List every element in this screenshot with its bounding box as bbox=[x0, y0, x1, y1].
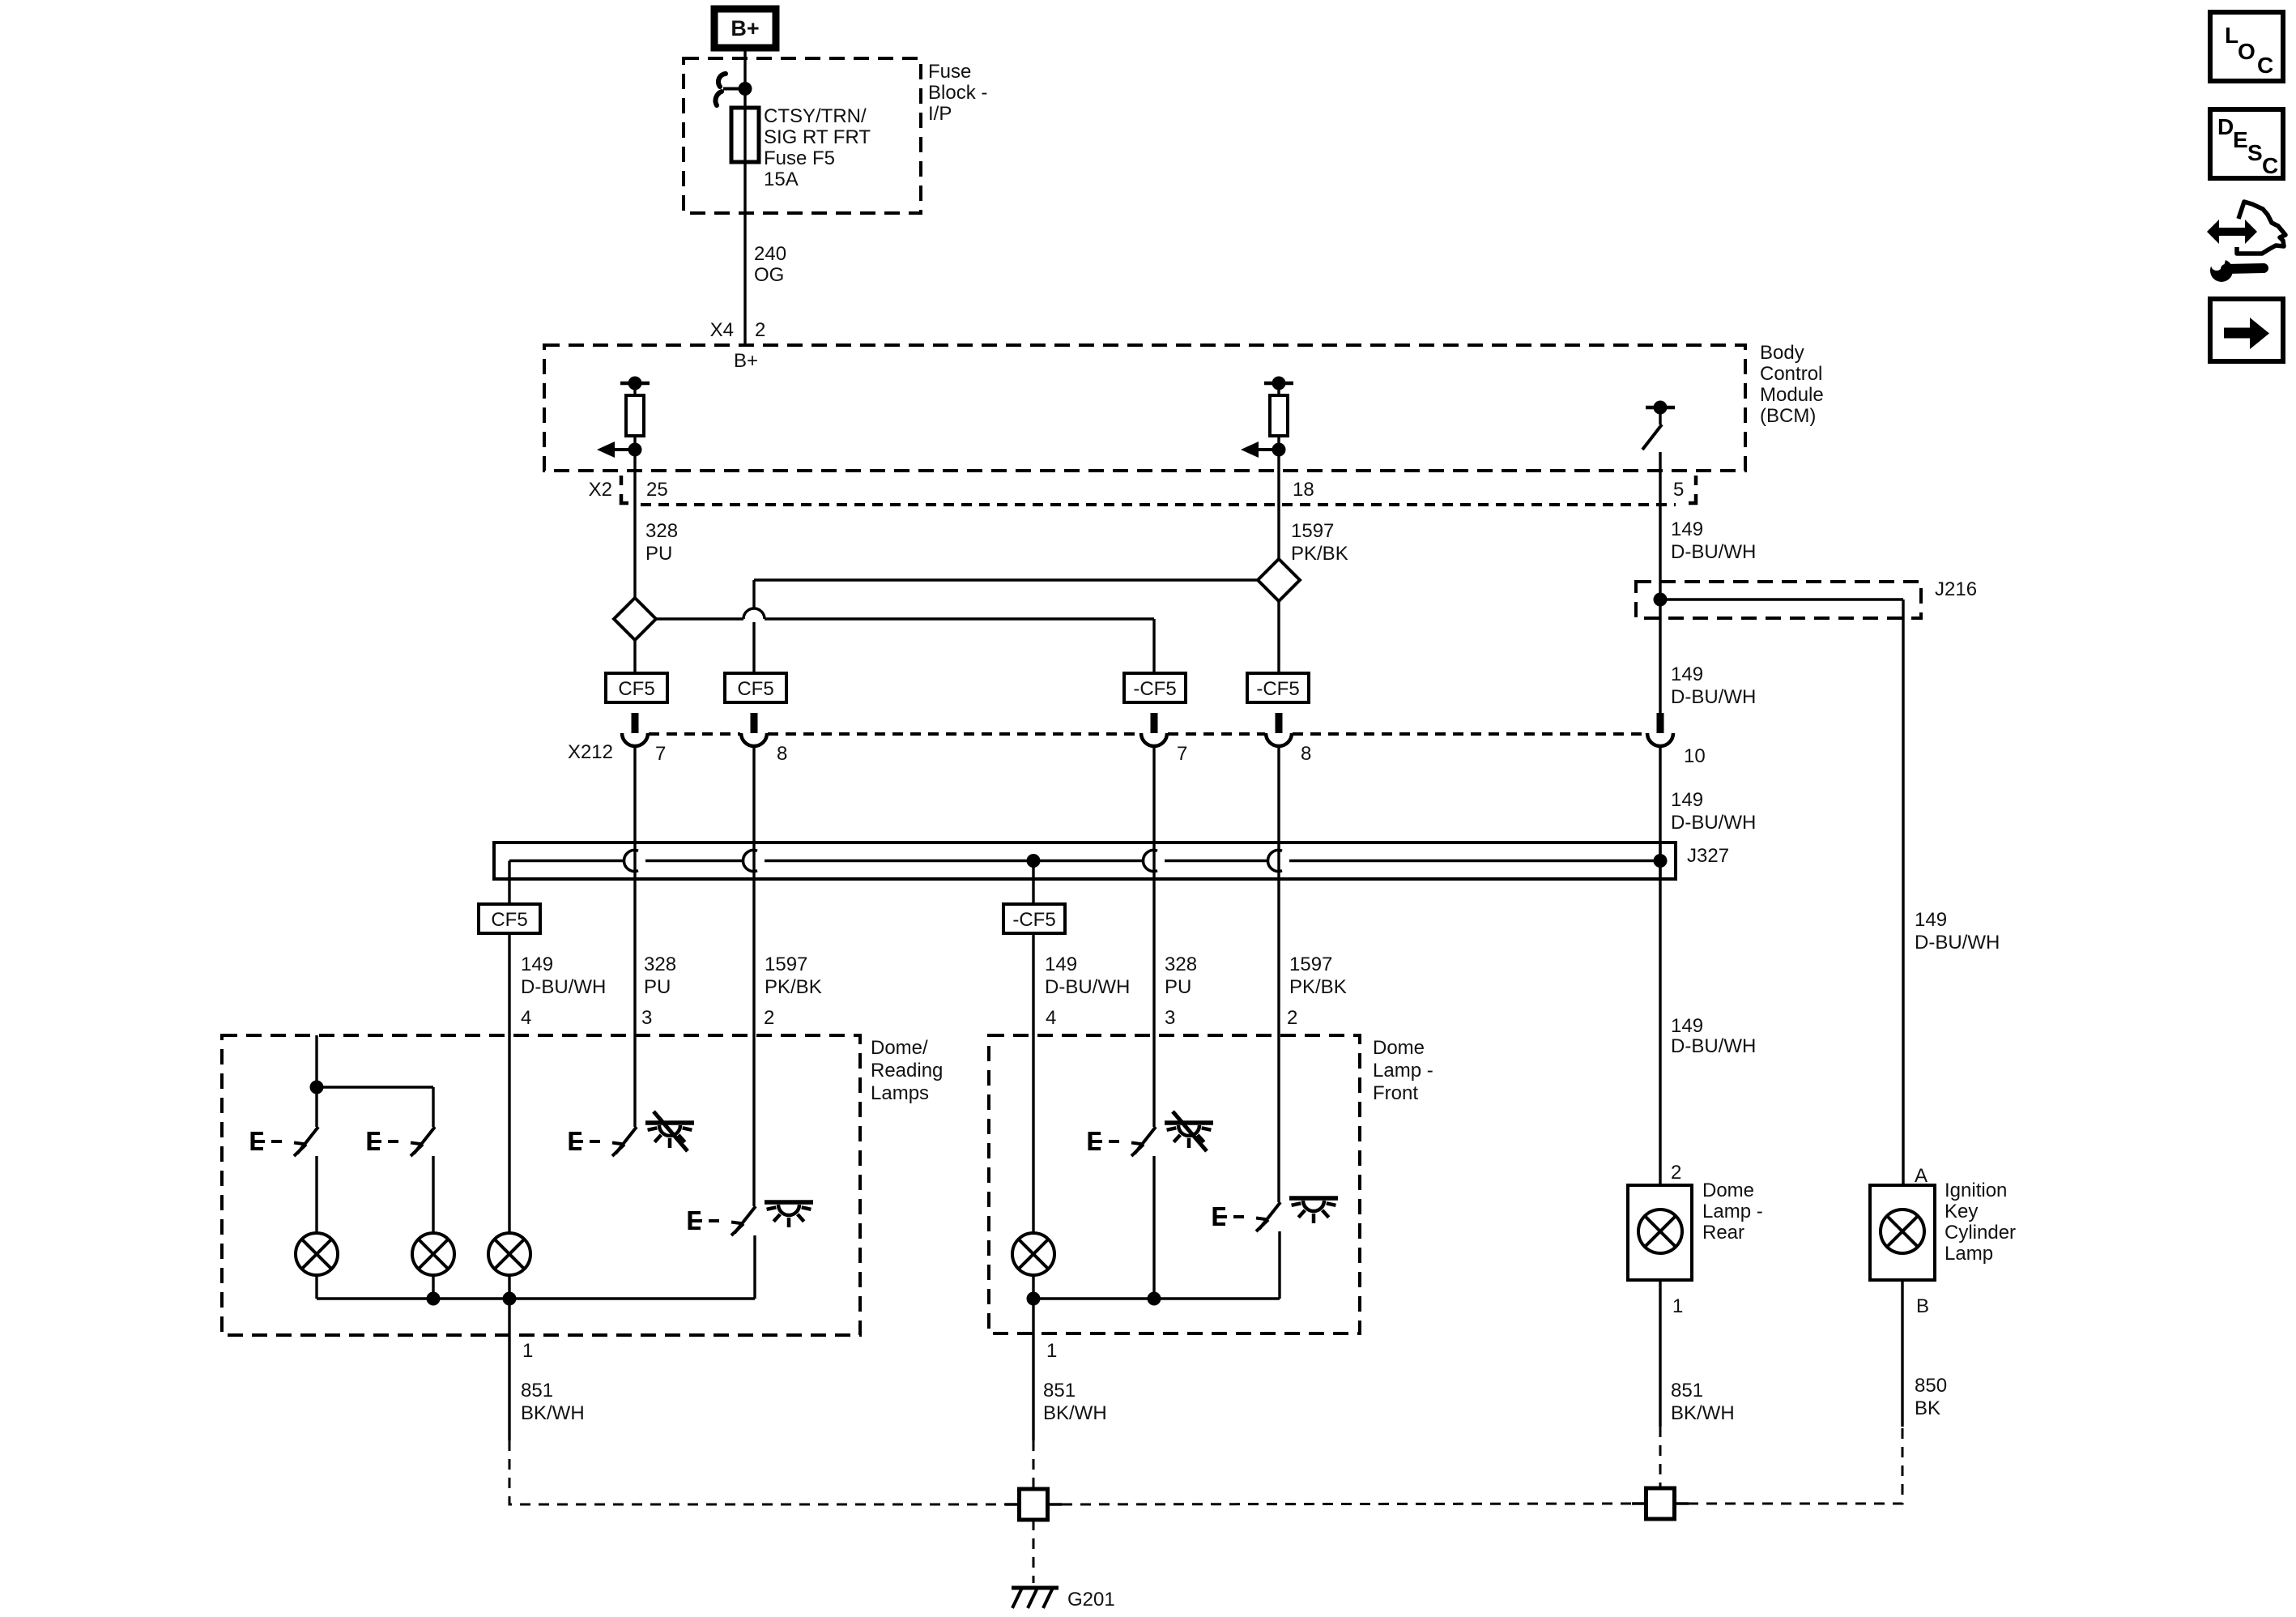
svg-text:3: 3 bbox=[1165, 1007, 1175, 1029]
J216 internal branch bbox=[1660, 599, 1903, 618]
svg-text:Body: Body bbox=[1760, 342, 1804, 364]
lamp-off icon left bbox=[645, 1111, 694, 1151]
wire label 1597 PK/BK pin2 left bbox=[764, 954, 822, 1029]
wire pin10 to J327 bbox=[1659, 746, 1661, 879]
Dome/Reading Lamps dashed box bbox=[222, 1035, 860, 1335]
svg-text:C: C bbox=[2262, 153, 2278, 178]
svg-text:2: 2 bbox=[764, 1007, 774, 1029]
wire front switch pin2 down bbox=[1278, 1231, 1280, 1299]
connector X212 labels bbox=[568, 741, 1706, 767]
gate -CF5 on branch bbox=[1124, 673, 1186, 702]
bus junction lamp2 bbox=[427, 1292, 441, 1306]
wire label 149 D-BU/WH branch bbox=[1915, 909, 2000, 954]
svg-text:BK/WH: BK/WH bbox=[1043, 1402, 1107, 1424]
svg-text:-CF5: -CF5 bbox=[1256, 678, 1299, 700]
svg-text:Fuse F5: Fuse F5 bbox=[764, 147, 835, 169]
ground splice square G201 path bbox=[1005, 1489, 1062, 1520]
svg-text:149: 149 bbox=[521, 954, 553, 975]
svg-text:G201: G201 bbox=[1067, 1589, 1115, 1611]
splice pack J327 internal bus bbox=[509, 860, 1660, 862]
svg-text:328: 328 bbox=[645, 520, 678, 542]
junction dot at fuse feed bbox=[739, 82, 752, 96]
wire fuse block to BCM bbox=[743, 162, 746, 345]
connector X2 right bracket bbox=[1689, 476, 1696, 503]
wire J327 to dome lamp rear bbox=[1659, 843, 1661, 1185]
svg-text:BK/WH: BK/WH bbox=[1671, 1402, 1735, 1424]
svg-text:Lamp -: Lamp - bbox=[1702, 1201, 1763, 1222]
Dome Lamp - Rear box bbox=[1628, 1185, 1692, 1280]
svg-text:Control: Control bbox=[1760, 363, 1822, 385]
svg-text:Ignition: Ignition bbox=[1945, 1180, 2007, 1201]
svg-text:X2: X2 bbox=[589, 479, 612, 501]
wire inside fuse block bbox=[743, 58, 746, 108]
connector X4 pin 2 labels bbox=[710, 319, 766, 341]
connector X212 pin 8 cup bbox=[741, 713, 767, 746]
svg-text:CF5: CF5 bbox=[491, 909, 527, 931]
svg-text:B+: B+ bbox=[731, 16, 759, 41]
svg-text:Block -: Block - bbox=[928, 82, 987, 104]
svg-text:149: 149 bbox=[1915, 909, 1947, 931]
svg-text:-CF5: -CF5 bbox=[1133, 678, 1176, 700]
wire switch to pin 5 bbox=[1659, 452, 1661, 505]
svg-text:CF5: CF5 bbox=[737, 678, 773, 700]
svg-text:X4: X4 bbox=[710, 319, 734, 341]
wire label 149 D-BU/WH below X212 bbox=[1671, 789, 1756, 834]
svg-text:18: 18 bbox=[1293, 479, 1314, 501]
svg-text:10: 10 bbox=[1684, 745, 1706, 767]
svg-text:Module: Module bbox=[1760, 384, 1824, 406]
branch wire from PU splice to -CF5 bbox=[656, 619, 1154, 673]
bus hop at pin7 wire bbox=[624, 851, 638, 872]
front door switch with lamp-on icon (pin 2) bbox=[1277, 1035, 1280, 1202]
wire -CF5 gate to dome front box bbox=[1032, 932, 1034, 1035]
wire rear lamp to ground bbox=[1659, 1280, 1661, 1427]
ignition key bulb bbox=[1881, 1210, 1924, 1253]
wire ground pin 1 left bbox=[508, 1299, 510, 1335]
svg-text:149: 149 bbox=[1045, 954, 1077, 975]
front door switch with lamp-off icon (pin 3) bbox=[1152, 1035, 1155, 1127]
svg-text:8: 8 bbox=[1301, 743, 1311, 765]
svg-text:SIG RT FRT: SIG RT FRT bbox=[764, 126, 871, 148]
wire pin4 to dome bulb bbox=[508, 1035, 510, 1233]
door switch with lamp-on icon (pin 2) bbox=[752, 1035, 755, 1206]
reading lamp switch 2 bbox=[368, 1127, 435, 1156]
wire label 1597 PK/BK pin2 right bbox=[1287, 954, 1347, 1029]
svg-text:851: 851 bbox=[1671, 1380, 1703, 1402]
svg-text:1597: 1597 bbox=[765, 954, 807, 975]
Ignition Key Cylinder Lamp box bbox=[1870, 1185, 1935, 1280]
front dome bulb bbox=[1012, 1233, 1054, 1275]
wires through J327 down to lamps bbox=[635, 746, 1279, 1035]
svg-text:X212: X212 bbox=[568, 741, 613, 763]
bus hop at pin7b wire bbox=[1144, 851, 1157, 872]
wire J327 bus down to CF5 gate bbox=[508, 861, 510, 905]
Dome Lamp - Rear label bbox=[1702, 1180, 1763, 1244]
svg-text:(BCM): (BCM) bbox=[1760, 405, 1816, 427]
svg-text:1: 1 bbox=[1046, 1340, 1057, 1362]
svg-text:B: B bbox=[1916, 1295, 1929, 1317]
svg-text:Fuse: Fuse bbox=[928, 61, 971, 83]
BCM internal switch (pin 5 input) bbox=[1642, 401, 1675, 450]
svg-text:L: L bbox=[2225, 23, 2238, 48]
svg-text:851: 851 bbox=[1043, 1380, 1076, 1402]
reading lamp switch 1 bbox=[251, 1127, 318, 1156]
lamp return bus left bbox=[317, 1275, 755, 1299]
wire label 149 D-BU/WH to rear lamp bbox=[1671, 1015, 1756, 1057]
bus hop at pin8b wire bbox=[1268, 851, 1282, 872]
wire label 149 D-BU/WH mid bbox=[1671, 663, 1756, 708]
svg-text:328: 328 bbox=[1165, 954, 1197, 975]
wire label 851 BK/WH front bbox=[1043, 1380, 1107, 1424]
svg-text:240: 240 bbox=[754, 243, 786, 265]
svg-text:Lamp: Lamp bbox=[1945, 1243, 1993, 1265]
svg-text:Dome/: Dome/ bbox=[871, 1037, 928, 1059]
Dome Lamp - Front label bbox=[1373, 1037, 1433, 1104]
connector X2 labels bbox=[589, 479, 1685, 501]
connector X212 pin 7b cup bbox=[1141, 713, 1167, 746]
wire hop over branch bbox=[743, 608, 765, 619]
reading lamp bulb 1 bbox=[296, 1233, 338, 1275]
service icon body outline bbox=[2237, 202, 2285, 254]
svg-text:D-BU/WH: D-BU/WH bbox=[1671, 686, 1756, 708]
service icon wrench bbox=[2203, 246, 2264, 282]
svg-text:BK: BK bbox=[1915, 1397, 1940, 1419]
svg-text:149: 149 bbox=[1671, 1015, 1703, 1037]
svg-text:I/P: I/P bbox=[928, 103, 952, 125]
ground wire left dashed run bbox=[509, 1440, 1020, 1504]
svg-text:149: 149 bbox=[1671, 518, 1703, 540]
svg-text:8: 8 bbox=[777, 743, 787, 765]
connector X212 pin 8b cup bbox=[1266, 713, 1292, 746]
LOC legend box bbox=[2210, 12, 2283, 81]
bus junction front bulb bbox=[1027, 1292, 1041, 1306]
wire 1597 PK/BK pin18 to splice bbox=[1277, 505, 1280, 559]
svg-text:E: E bbox=[2233, 127, 2248, 152]
svg-text:D-BU/WH: D-BU/WH bbox=[1915, 932, 2000, 954]
BCM internal resistor (pin 25 driver) bbox=[597, 377, 650, 459]
svg-text:S: S bbox=[2247, 140, 2263, 165]
junction dot internal feed bbox=[310, 1081, 324, 1094]
wire switch2 to lamp2 bbox=[432, 1156, 434, 1233]
svg-text:Dome: Dome bbox=[1702, 1180, 1754, 1201]
svg-text:D: D bbox=[2217, 114, 2234, 139]
wire label 328 PU bbox=[645, 520, 678, 565]
svg-text:850: 850 bbox=[1915, 1375, 1947, 1397]
wire dome bulb to bus bbox=[508, 1275, 510, 1299]
wire label 1597 PK/BK bbox=[1291, 520, 1348, 565]
svg-text:A: A bbox=[1915, 1165, 1928, 1187]
wire label 328 PU pin3 left bbox=[641, 954, 676, 1029]
svg-text:Rear: Rear bbox=[1702, 1222, 1744, 1244]
svg-text:OG: OG bbox=[754, 264, 784, 286]
ground symbol G201 bbox=[1012, 1588, 1059, 1608]
wire switch1 to lamp1 bbox=[315, 1156, 317, 1233]
splice diamond on 328 PU bbox=[614, 598, 656, 640]
svg-text:D-BU/WH: D-BU/WH bbox=[1671, 812, 1756, 834]
fuse F5 label bbox=[764, 105, 871, 190]
svg-text:7: 7 bbox=[655, 743, 666, 765]
connector X2 dashed line bbox=[641, 503, 1676, 506]
splice diamond on 1597 PK/BK bbox=[1258, 559, 1300, 601]
Dome Lamp - Front dashed box bbox=[989, 1035, 1360, 1333]
lamp return bus front bbox=[1033, 1275, 1280, 1299]
gate -CF5 on dome front feed bbox=[1003, 904, 1065, 933]
svg-text:Reading: Reading bbox=[871, 1060, 943, 1082]
ground wire left solid bbox=[508, 1335, 510, 1440]
svg-text:3: 3 bbox=[641, 1007, 652, 1029]
svg-text:7: 7 bbox=[1177, 743, 1187, 765]
svg-text:D-BU/WH: D-BU/WH bbox=[1671, 541, 1756, 563]
reading lamp bulb 2 bbox=[412, 1233, 454, 1275]
power symbol B+ bbox=[714, 9, 776, 48]
fuse block label bbox=[928, 61, 987, 125]
wire label 851 BK/WH left bbox=[521, 1380, 585, 1424]
svg-text:PU: PU bbox=[645, 543, 672, 565]
wire 328 PU pin25 to splice bbox=[633, 505, 636, 598]
svg-text:Front: Front bbox=[1373, 1082, 1418, 1104]
svg-text:PK/BK: PK/BK bbox=[1289, 976, 1347, 998]
connector X212 pin 7 cup bbox=[622, 713, 648, 746]
wire B+ to fuse block bbox=[743, 48, 746, 58]
svg-text:4: 4 bbox=[1046, 1007, 1056, 1029]
splice J216 dashed box bbox=[1636, 582, 1921, 618]
svg-text:15A: 15A bbox=[764, 169, 799, 190]
ground dashed below square bbox=[1033, 1520, 1035, 1583]
svg-text:Key: Key bbox=[1945, 1201, 1978, 1222]
wire label 850 BK bbox=[1915, 1375, 1947, 1419]
wire label 149 D-BU/WH upper bbox=[1671, 518, 1756, 563]
svg-text:2: 2 bbox=[1287, 1007, 1297, 1029]
svg-text:PK/BK: PK/BK bbox=[1291, 543, 1348, 565]
svg-text:25: 25 bbox=[646, 479, 668, 501]
gate CF5 on branch bbox=[725, 673, 786, 702]
wire label 149 D-BU/WH pin4 left bbox=[521, 954, 606, 1029]
wire PK/BK splice down to -CF5 bbox=[1277, 601, 1280, 673]
wire front switch pin3 down bbox=[1152, 1156, 1155, 1299]
wire label 851 BK/WH rear bbox=[1671, 1380, 1735, 1424]
Dome/Reading Lamps label bbox=[871, 1037, 943, 1104]
DESC legend box bbox=[2210, 109, 2283, 178]
fuse block - I/P dashed box bbox=[684, 58, 921, 213]
svg-text:B+: B+ bbox=[734, 350, 758, 372]
svg-text:328: 328 bbox=[644, 954, 676, 975]
svg-text:BK/WH: BK/WH bbox=[521, 1402, 585, 1424]
bus junction to -CF5 branch bbox=[1027, 854, 1041, 868]
svg-text:Cylinder: Cylinder bbox=[1945, 1222, 2016, 1244]
wire switch pin2 down bbox=[753, 1235, 756, 1299]
svg-text:1597: 1597 bbox=[1289, 954, 1332, 975]
svg-text:PU: PU bbox=[644, 976, 671, 998]
door switch with lamp-off icon (pin 3) bbox=[633, 1035, 636, 1127]
svg-text:851: 851 bbox=[521, 1380, 553, 1402]
svg-text:2: 2 bbox=[1671, 1162, 1681, 1184]
next-page arrow box bbox=[2210, 299, 2283, 361]
lamp-off icon right bbox=[1165, 1111, 1213, 1151]
connector X2 left bracket bbox=[621, 476, 628, 503]
svg-text:D-BU/WH: D-BU/WH bbox=[1045, 976, 1130, 998]
svg-text:1: 1 bbox=[522, 1340, 533, 1362]
ground dashed rear to ignition bbox=[1688, 1427, 1902, 1504]
svg-text:O: O bbox=[2238, 39, 2256, 64]
dome bulb left bbox=[488, 1233, 530, 1275]
BCM internal resistor (pin 18 driver) bbox=[1241, 377, 1293, 459]
connector X212 dashed line bbox=[649, 732, 1646, 736]
wire resistor to pin 25 bbox=[633, 450, 636, 505]
bus junction front switch3 bbox=[1148, 1292, 1161, 1306]
svg-text:CTSY/TRN/: CTSY/TRN/ bbox=[764, 105, 867, 127]
ground dashed rear bbox=[1659, 1427, 1662, 1489]
bus junction to pin10 wire bbox=[1654, 854, 1668, 868]
svg-text:149: 149 bbox=[1671, 663, 1703, 685]
svg-text:PU: PU bbox=[1165, 976, 1191, 998]
svg-text:1597: 1597 bbox=[1291, 520, 1334, 542]
svg-text:D-BU/WH: D-BU/WH bbox=[1671, 1035, 1756, 1057]
branch wire from PK/BK splice to CF5 bbox=[754, 580, 1258, 673]
svg-text:149: 149 bbox=[1671, 789, 1703, 811]
wire J216 to X212 pin10 bbox=[1659, 599, 1661, 713]
wire label 149 D-BU/WH pin4 right bbox=[1045, 954, 1130, 1029]
Ignition Key Cylinder Lamp label bbox=[1945, 1180, 2016, 1265]
J216 junction dot bbox=[1654, 593, 1668, 607]
wire ignition lamp down bbox=[1901, 1280, 1903, 1427]
svg-text:PK/BK: PK/BK bbox=[765, 976, 822, 998]
Body Control Module dashed box bbox=[544, 345, 1745, 471]
lamp-on icon left bbox=[765, 1202, 813, 1227]
bus hop at pin8 wire bbox=[743, 851, 757, 872]
gate CF5 on dome reading feed bbox=[479, 904, 540, 933]
svg-text:J327: J327 bbox=[1687, 845, 1729, 867]
wire CF5 gate to dome reading box bbox=[508, 932, 510, 1035]
BCM label bbox=[1760, 342, 1824, 427]
service icon double arrow bbox=[2207, 220, 2257, 244]
svg-text:1: 1 bbox=[1672, 1295, 1683, 1317]
svg-text:4: 4 bbox=[521, 1007, 531, 1029]
svg-text:-CF5: -CF5 bbox=[1012, 909, 1055, 931]
svg-text:Lamp -: Lamp - bbox=[1373, 1060, 1433, 1082]
splice pack J327 outline bbox=[494, 843, 1676, 879]
svg-text:CF5: CF5 bbox=[618, 678, 654, 700]
wire 149 D-BU/WH pin5 to J216 bbox=[1659, 505, 1661, 599]
wire PU splice down to CF5 bbox=[633, 640, 636, 673]
wire label 240 OG bbox=[754, 243, 786, 286]
gate CF5 on 328 PU bbox=[606, 673, 667, 702]
svg-text:C: C bbox=[2257, 53, 2273, 78]
internal feed wire and junction bbox=[317, 1035, 433, 1127]
ground dashed to rear square bbox=[1062, 1504, 1631, 1504]
ground splice square rear bbox=[1632, 1488, 1689, 1519]
wire label 328 PU pin3 right bbox=[1165, 954, 1197, 1029]
wire J327 junction down to -CF5 gate bbox=[1032, 861, 1034, 905]
gate -CF5 on 1597 PK/BK bbox=[1247, 673, 1309, 702]
svg-text:D-BU/WH: D-BU/WH bbox=[521, 976, 606, 998]
wire resistor to pin 18 bbox=[1277, 450, 1280, 505]
svg-text:Lamps: Lamps bbox=[871, 1082, 929, 1104]
wire ground pin 1 front bbox=[1032, 1299, 1034, 1333]
fuse F5 15A bbox=[731, 108, 759, 162]
connector X212 pin 10 cup bbox=[1647, 713, 1673, 746]
svg-text:J216: J216 bbox=[1935, 578, 1977, 600]
svg-text:5: 5 bbox=[1673, 479, 1684, 501]
wire branch to ignition key lamp bbox=[1902, 618, 1904, 1185]
lamp-on icon right bbox=[1289, 1198, 1338, 1223]
svg-text:2: 2 bbox=[755, 319, 765, 341]
bus clip symbol bbox=[715, 74, 745, 105]
ground wire front solid bbox=[1032, 1333, 1034, 1440]
bus junction lamp3 bbox=[503, 1292, 517, 1306]
wire pin4 to front dome bulb bbox=[1032, 1035, 1034, 1233]
dome rear bulb bbox=[1638, 1210, 1682, 1253]
ground wire front dashed bbox=[1033, 1440, 1035, 1489]
svg-text:Dome: Dome bbox=[1373, 1037, 1425, 1059]
